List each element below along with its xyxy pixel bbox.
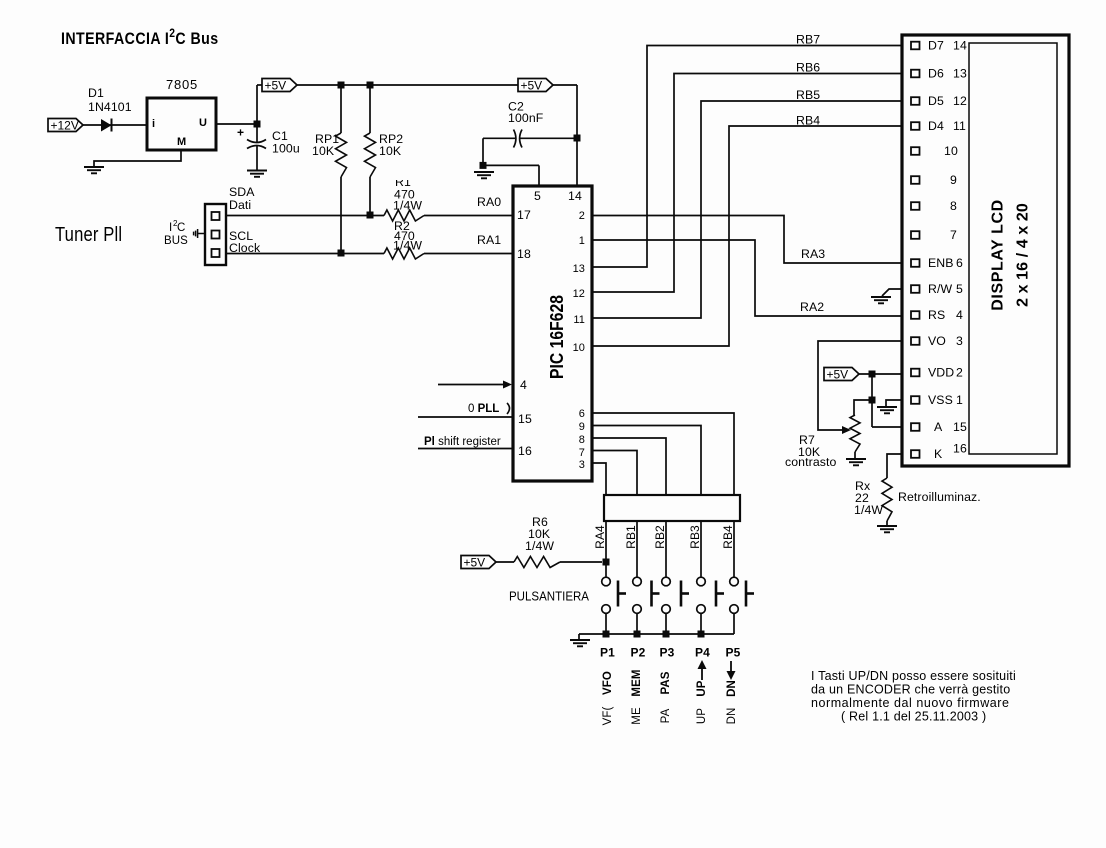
svg-text:12: 12 (953, 94, 967, 108)
svg-text:( Rel 1.1 del 25.11.2003 ): ( Rel 1.1 del 25.11.2003 ) (841, 710, 986, 724)
svg-text:contrasto: contrasto (785, 455, 837, 469)
svg-text:1: 1 (956, 393, 963, 407)
svg-text:VDD: VDD (928, 366, 954, 380)
svg-text:3: 3 (579, 459, 585, 471)
svg-text:VO: VO (928, 334, 946, 348)
svg-text:17: 17 (517, 208, 531, 222)
svg-text:11: 11 (573, 314, 585, 326)
svg-text:SDA: SDA (229, 185, 255, 199)
svg-text:UP: UP (696, 708, 708, 724)
svg-text:1/4W: 1/4W (525, 539, 554, 553)
svg-text:da un ENCODER che verrà gesti: da un ENCODER che verrà gestito (811, 683, 1010, 697)
svg-text:DN: DN (726, 708, 738, 725)
svg-text:RB7: RB7 (796, 33, 820, 47)
svg-text:RB4: RB4 (721, 525, 735, 549)
svg-text:1/4W: 1/4W (393, 239, 422, 253)
svg-text:ME: ME (631, 707, 643, 725)
svg-text:10K: 10K (379, 144, 402, 158)
svg-text:8: 8 (950, 199, 957, 213)
svg-text:5: 5 (956, 282, 963, 296)
svg-text:P3: P3 (660, 646, 675, 660)
svg-text:PULSANTIERA: PULSANTIERA (509, 589, 589, 604)
svg-text:Clock: Clock (229, 241, 261, 255)
svg-text:D5: D5 (928, 94, 944, 108)
svg-text:16: 16 (953, 442, 967, 456)
svg-text:9: 9 (579, 421, 585, 433)
svg-text:1: 1 (579, 235, 585, 247)
svg-text:RB3: RB3 (688, 525, 702, 549)
svg-text:VFO: VFO (602, 671, 614, 695)
svg-text:UP: UP (696, 680, 708, 696)
svg-text:+5V: +5V (265, 78, 287, 92)
svg-text:Retroilluminaz.: Retroilluminaz. (898, 490, 981, 504)
svg-text:15: 15 (953, 420, 967, 434)
svg-text:Pl shift register: Pl shift register (424, 436, 501, 448)
svg-text:9: 9 (950, 173, 957, 187)
svg-text:5: 5 (534, 189, 541, 203)
svg-text:P4: P4 (695, 646, 710, 660)
svg-text:DISPLAY LCD: DISPLAY LCD (990, 199, 1007, 311)
svg-text:RA0: RA0 (477, 195, 501, 209)
svg-text:Tuner Pll: Tuner Pll (55, 223, 122, 246)
svg-text:RS: RS (928, 308, 945, 322)
svg-text:100nF: 100nF (508, 111, 544, 125)
svg-text:RA2: RA2 (800, 300, 824, 314)
svg-text:P2: P2 (631, 646, 646, 660)
svg-text:11: 11 (953, 119, 966, 133)
svg-text:RB6: RB6 (796, 61, 820, 75)
svg-text:18: 18 (517, 247, 531, 261)
svg-text:R/W: R/W (928, 282, 952, 296)
svg-text:I Tasti UP/DN posso essere sos: I Tasti UP/DN posso essere sosituiti (811, 669, 1016, 683)
svg-text:+5V: +5V (464, 555, 486, 569)
svg-text:14: 14 (953, 39, 967, 53)
svg-text:RB5: RB5 (796, 88, 820, 102)
svg-text:VSS: VSS (928, 393, 953, 407)
svg-text:6: 6 (579, 408, 585, 420)
svg-text:BUS: BUS (164, 235, 188, 247)
svg-text:4: 4 (956, 308, 963, 322)
svg-text:DN: DN (726, 680, 738, 697)
svg-text:RA4: RA4 (593, 525, 607, 549)
svg-text:PIC 16F628: PIC 16F628 (546, 295, 567, 379)
svg-text:RB1: RB1 (624, 525, 638, 549)
svg-text:2: 2 (956, 366, 963, 380)
svg-text:P5: P5 (726, 646, 741, 660)
svg-text:13: 13 (573, 263, 585, 275)
svg-text:13: 13 (953, 67, 967, 81)
svg-text:D6: D6 (928, 67, 944, 81)
svg-text:RA3: RA3 (801, 247, 825, 261)
svg-text:10K: 10K (312, 144, 335, 158)
svg-text:P1: P1 (600, 646, 615, 660)
svg-text:U: U (199, 117, 207, 129)
svg-text:Dati: Dati (229, 198, 251, 212)
svg-text:7: 7 (579, 447, 585, 459)
svg-text:0 PLL: 0 PLL (468, 403, 499, 415)
svg-text:D1: D1 (88, 86, 104, 100)
svg-text:ENB: ENB (928, 256, 954, 270)
svg-text:normalmente dal nuovo firmw: normalmente dal nuovo firmware (811, 696, 1010, 710)
svg-text:100u: 100u (272, 142, 300, 156)
svg-text:+5V: +5V (827, 367, 849, 381)
svg-text:10: 10 (944, 144, 958, 158)
svg-text:D4: D4 (928, 119, 944, 133)
svg-text:i: i (152, 118, 155, 130)
svg-text:6: 6 (956, 256, 963, 270)
svg-text:VF(: VF( (602, 707, 614, 726)
svg-text:4: 4 (520, 378, 527, 392)
svg-text:12: 12 (573, 288, 585, 300)
svg-text:+12V: +12V (51, 118, 79, 132)
svg-text:1/4W: 1/4W (854, 503, 883, 517)
svg-text:16: 16 (518, 444, 532, 458)
svg-text:15: 15 (518, 412, 532, 426)
svg-text:A: A (934, 420, 943, 434)
svg-text:M: M (177, 136, 186, 148)
svg-text:7805: 7805 (166, 77, 198, 92)
svg-text:K: K (934, 447, 943, 461)
svg-text:I: I (169, 222, 172, 234)
svg-text:3: 3 (956, 334, 963, 348)
svg-text:2 x 16 / 4 x 20: 2 x 16 / 4 x 20 (1015, 203, 1032, 307)
svg-text:10: 10 (573, 342, 585, 354)
svg-text:INTERFACCIA I2C Bus: INTERFACCIA I2C Bus (61, 27, 219, 48)
svg-text:RB2: RB2 (653, 525, 667, 549)
svg-text:C: C (177, 222, 185, 234)
svg-text:2: 2 (579, 210, 585, 222)
svg-text:1/4W: 1/4W (393, 199, 422, 213)
svg-text:MEM: MEM (631, 669, 643, 696)
svg-text:RB4: RB4 (796, 114, 820, 128)
svg-text:D7: D7 (928, 39, 944, 53)
svg-text:PAS: PAS (660, 671, 672, 694)
svg-text:+5V: +5V (521, 78, 543, 92)
svg-text:PA: PA (660, 708, 672, 723)
svg-text:RA1: RA1 (477, 233, 501, 247)
svg-text:+: + (237, 126, 244, 140)
svg-text:1N4101: 1N4101 (88, 100, 132, 114)
svg-text:14: 14 (568, 189, 582, 203)
svg-text:8: 8 (579, 434, 585, 446)
svg-text:7: 7 (950, 228, 957, 242)
